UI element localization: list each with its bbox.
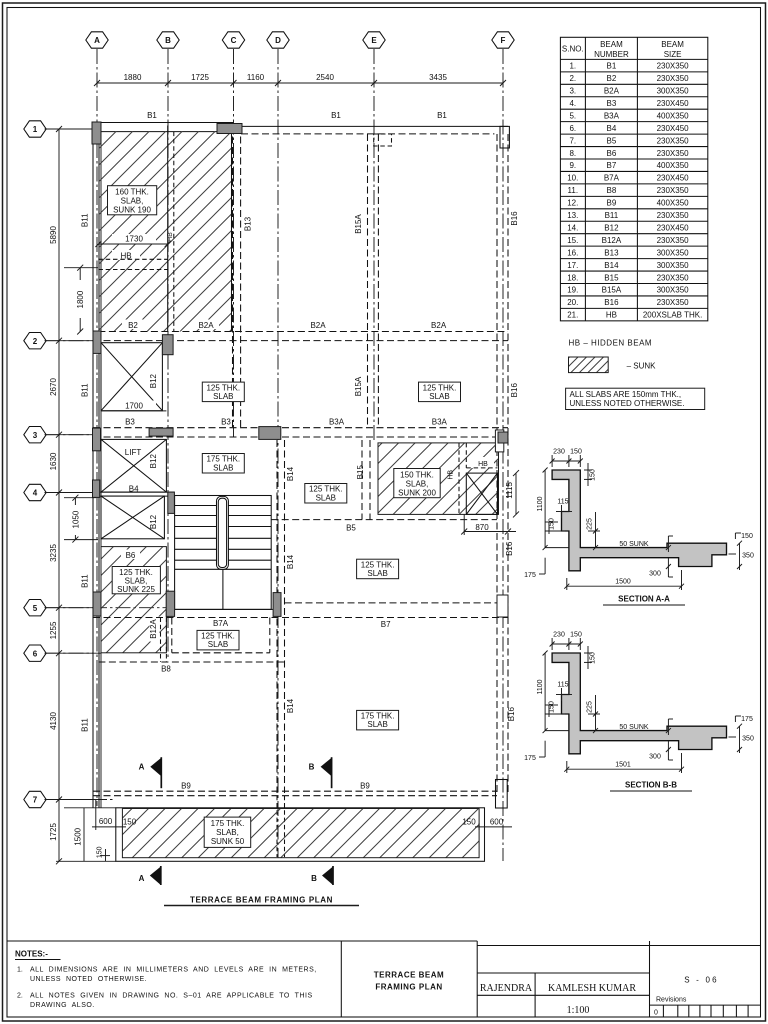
- svg-text:D: D: [275, 36, 281, 45]
- svg-text:B16: B16: [510, 383, 519, 398]
- svg-text:SUNK 50: SUNK 50: [211, 837, 245, 846]
- band dims left: [92, 800, 137, 830]
- bottom slab hatched 175 THK SUNK 50: [122, 809, 479, 858]
- svg-text:300: 300: [649, 571, 661, 578]
- beams B3 B3A along grid 3: [93, 427, 508, 429]
- svg-text:SLAB: SLAB: [367, 569, 387, 578]
- grid bubble B: [157, 32, 179, 48]
- svg-text:230X450: 230X450: [657, 124, 690, 133]
- staircase: [175, 496, 272, 610]
- revision boxes: [663, 1005, 748, 1017]
- svg-text:1255: 1255: [49, 621, 58, 639]
- column D/5: [273, 593, 281, 617]
- grid bubble D: [267, 32, 289, 48]
- grid line 7: [45, 799, 115, 801]
- svg-text:15.: 15.: [567, 236, 578, 245]
- svg-text:225: 225: [587, 518, 594, 530]
- dim 1700: [101, 401, 166, 411]
- svg-text:2670: 2670: [49, 378, 58, 396]
- column B/4: [168, 492, 175, 513]
- column F/7: [496, 780, 508, 809]
- svg-text:20.: 20.: [567, 298, 578, 307]
- svg-text:150: 150: [549, 518, 556, 530]
- svg-text:B9: B9: [181, 782, 191, 791]
- column B/2: [162, 335, 173, 355]
- svg-text:12.: 12.: [567, 199, 578, 208]
- column F/1: [500, 126, 509, 148]
- svg-text:UNLESS NOTED OTHERWISE.: UNLESS NOTED OTHERWISE.: [570, 399, 685, 408]
- svg-text:HB: HB: [478, 461, 488, 468]
- svg-text:B15A: B15A: [602, 286, 622, 295]
- svg-text:SIZE: SIZE: [664, 50, 682, 59]
- svg-text:3435: 3435: [429, 73, 447, 82]
- svg-text:B11: B11: [81, 213, 90, 227]
- svg-text:1501: 1501: [615, 762, 631, 769]
- svg-text:B15A: B15A: [354, 214, 363, 234]
- svg-text:B13: B13: [604, 248, 619, 257]
- svg-text:B16: B16: [505, 541, 514, 556]
- svg-text:8.: 8.: [569, 149, 576, 158]
- grid bubble F: [492, 32, 514, 48]
- column A/4: [93, 480, 100, 497]
- svg-text:KAMLESH KUMAR: KAMLESH KUMAR: [548, 983, 636, 994]
- band dims vertical: [56, 808, 116, 862]
- svg-text:B2A: B2A: [431, 321, 447, 330]
- stair landing bottom: [172, 608, 278, 610]
- svg-text:BEAM: BEAM: [600, 40, 623, 49]
- column C/1: [217, 124, 242, 134]
- svg-text:18.: 18.: [567, 273, 578, 282]
- svg-text:230: 230: [553, 449, 565, 456]
- bottom terrace band outer: [116, 808, 485, 862]
- svg-text:B15A: B15A: [354, 376, 363, 396]
- svg-text:2540: 2540: [316, 73, 334, 82]
- svg-text:SLAB: SLAB: [208, 640, 228, 649]
- column A/2: [93, 331, 101, 353]
- grid bubble E: [363, 32, 385, 48]
- column D/3: [259, 427, 281, 440]
- hidden beam HB vertical in slab S1: [167, 126, 169, 332]
- legend SUNK hatch: [569, 357, 609, 373]
- section top dims: [552, 643, 580, 645]
- svg-text:B1: B1: [331, 111, 341, 120]
- extension line grid 3: [45, 434, 94, 436]
- svg-text:NOTES:-: NOTES:-: [15, 950, 48, 959]
- svg-text:175: 175: [741, 716, 753, 723]
- shaft X box 2: [101, 496, 164, 539]
- grid bubble 7: [24, 791, 46, 807]
- svg-text:SUNK 200: SUNK 200: [398, 488, 436, 497]
- svg-text:E: E: [371, 36, 377, 45]
- beam B15: [361, 440, 363, 520]
- svg-text:B4: B4: [607, 124, 617, 133]
- grid line C: [233, 49, 235, 437]
- svg-text:400X350: 400X350: [657, 161, 690, 170]
- svg-text:17.: 17.: [567, 261, 578, 270]
- section flag A: [139, 757, 162, 788]
- grid line E: [373, 49, 375, 443]
- slab S1 text box: [108, 186, 157, 215]
- slab S3 hatched 125 THK SUNK 225 (B6): [101, 547, 166, 653]
- svg-text:B3: B3: [607, 99, 617, 108]
- extension line grid 1: [45, 128, 94, 130]
- svg-text:ALL SLABS ARE 150mm THK.,: ALL SLABS ARE 150mm THK.,: [570, 390, 682, 399]
- svg-text:225: 225: [587, 701, 594, 713]
- svg-text:B5: B5: [346, 524, 356, 533]
- svg-text:B2A: B2A: [604, 87, 620, 96]
- section flag B: [309, 757, 332, 788]
- beam B9 along grid 7: [93, 790, 497, 792]
- section flag A: [139, 866, 161, 885]
- svg-text:3235: 3235: [49, 544, 58, 562]
- svg-text:350: 350: [742, 736, 754, 743]
- svg-text:400X350: 400X350: [657, 199, 690, 208]
- svg-text:NUMBER: NUMBER: [594, 50, 629, 59]
- svg-text:1.: 1.: [17, 967, 23, 974]
- svg-text:B16: B16: [507, 706, 516, 721]
- svg-text:HB – HIDDEN BEAM: HB – HIDDEN BEAM: [569, 339, 653, 348]
- svg-text:B11: B11: [81, 718, 90, 732]
- svg-text:11.: 11.: [568, 186, 579, 195]
- svg-text:B14: B14: [604, 261, 619, 270]
- svg-text:B7: B7: [607, 161, 617, 170]
- column A/5: [93, 592, 101, 616]
- svg-text:1050: 1050: [72, 510, 81, 528]
- svg-text:B3A: B3A: [604, 111, 620, 120]
- svg-text:150: 150: [570, 449, 582, 456]
- top dimension line: [97, 82, 503, 84]
- svg-text:TERRACE BEAM: TERRACE BEAM: [374, 971, 444, 980]
- svg-text:B12: B12: [149, 373, 158, 388]
- svg-text:16.: 16.: [567, 248, 578, 257]
- slab label 175 THK (B-D,3-4): [202, 454, 244, 474]
- svg-text:B14: B14: [286, 554, 295, 569]
- svg-text:600: 600: [490, 818, 504, 827]
- X box in slab S2: [466, 473, 497, 514]
- slab S1 hatched 160 THK SUNK 190: [99, 132, 232, 332]
- svg-text:5.: 5.: [569, 111, 576, 120]
- beam B16 along grid F: [496, 134, 498, 793]
- svg-text:LIFT: LIFT: [125, 448, 142, 457]
- svg-text:B7: B7: [381, 620, 391, 629]
- svg-text:115: 115: [557, 499, 568, 506]
- svg-text:1500: 1500: [74, 827, 83, 845]
- svg-text:230X350: 230X350: [657, 236, 690, 245]
- svg-text:DRAWING ALSO.: DRAWING ALSO.: [30, 1002, 95, 1009]
- svg-text:B1: B1: [147, 111, 157, 120]
- svg-text:19.: 19.: [567, 286, 578, 295]
- beam B8: [98, 661, 284, 663]
- svg-text:230X350: 230X350: [657, 149, 690, 158]
- svg-text:B3: B3: [125, 418, 135, 427]
- svg-text:1100: 1100: [537, 496, 544, 511]
- svg-text:B1: B1: [607, 62, 617, 71]
- grid line 3: [45, 434, 93, 436]
- svg-text:600: 600: [99, 817, 113, 826]
- lift shaft X box: [101, 439, 166, 492]
- svg-text:S.NO.: S.NO.: [562, 45, 584, 54]
- extension line grid 4: [45, 492, 94, 494]
- svg-text:50 SUNK: 50 SUNK: [619, 724, 649, 731]
- svg-text:1800: 1800: [76, 290, 85, 308]
- hidden beam HB horizontal in slab S1: [98, 250, 167, 270]
- svg-text:RAJENDRA: RAJENDRA: [480, 983, 533, 994]
- svg-text:230X350: 230X350: [657, 273, 690, 282]
- svg-text:4.: 4.: [569, 99, 576, 108]
- extension line grid 7: [45, 799, 94, 801]
- beam B14 along grid D: [276, 440, 278, 793]
- grid line F: [502, 49, 504, 861]
- svg-text:SLAB,: SLAB,: [121, 197, 144, 206]
- svg-text:B: B: [309, 763, 315, 772]
- svg-text:6: 6: [33, 649, 38, 658]
- svg-text:300X350: 300X350: [657, 261, 690, 270]
- svg-text:– SUNK: – SUNK: [627, 362, 657, 371]
- svg-text:300X350: 300X350: [657, 87, 690, 96]
- svg-text:B11: B11: [605, 211, 619, 220]
- svg-text:SLAB,: SLAB,: [406, 479, 429, 488]
- dim 1115: [505, 470, 519, 517]
- beam B15A along grid E: [367, 134, 369, 428]
- dim 1050: [64, 495, 98, 543]
- svg-text:ALL DIMENSIONS ARE IN MILLIMET: ALL DIMENSIONS ARE IN MILLIMETERS AND LE…: [30, 967, 317, 974]
- extension line grid 6: [45, 652, 94, 654]
- grid line 6: [45, 652, 101, 654]
- svg-text:B12: B12: [149, 514, 158, 529]
- svg-text:230X450: 230X450: [657, 174, 690, 183]
- svg-text:B15: B15: [604, 273, 619, 282]
- svg-text:50 SUNK: 50 SUNK: [619, 541, 649, 548]
- slab label 125 THK (D-F,5): [357, 559, 399, 579]
- svg-text:B9: B9: [360, 782, 370, 791]
- svg-text:5: 5: [33, 604, 38, 613]
- svg-text:150: 150: [590, 469, 597, 481]
- hidden beam HB corner in S2: [470, 457, 494, 468]
- slab label 125 THK (D-F,2-3): [419, 382, 461, 402]
- svg-text:230X350: 230X350: [657, 298, 690, 307]
- svg-text:3: 3: [33, 431, 38, 440]
- svg-text:B3: B3: [221, 418, 231, 427]
- svg-text:A: A: [94, 36, 100, 45]
- svg-text:150: 150: [741, 533, 753, 540]
- svg-text:B11: B11: [81, 383, 90, 397]
- svg-text:B: B: [311, 874, 317, 883]
- svg-text:230X350: 230X350: [657, 186, 690, 195]
- svg-text:A: A: [139, 874, 145, 883]
- svg-text:HB: HB: [606, 311, 617, 320]
- svg-text:SLAB: SLAB: [213, 463, 233, 472]
- svg-text:400X350: 400X350: [657, 111, 690, 120]
- svg-text:230X450: 230X450: [657, 223, 690, 232]
- grid bubble 5: [24, 600, 46, 616]
- grid bubble 6: [24, 645, 46, 661]
- svg-text:1.: 1.: [569, 62, 576, 71]
- svg-text:13.: 13.: [567, 211, 578, 220]
- svg-text:7: 7: [33, 796, 38, 805]
- svg-text:SLAB: SLAB: [213, 392, 233, 401]
- slab label 125 THK (D-E): [305, 484, 347, 504]
- svg-text:B1: B1: [437, 111, 447, 120]
- extension line grid 5: [45, 607, 94, 609]
- svg-text:B2: B2: [128, 321, 138, 330]
- svg-text:B5: B5: [607, 136, 617, 145]
- svg-text:6.: 6.: [569, 124, 576, 133]
- svg-text:300: 300: [649, 754, 661, 761]
- section B-B profile: [524, 632, 754, 774]
- svg-text:3.: 3.: [569, 87, 576, 96]
- svg-text:350: 350: [742, 553, 754, 560]
- svg-text:B3A: B3A: [329, 418, 345, 427]
- svg-text:300X350: 300X350: [657, 248, 690, 257]
- svg-text:115: 115: [557, 682, 568, 689]
- left dimension line: [58, 129, 60, 861]
- svg-text:HB: HB: [448, 470, 455, 480]
- svg-text:B12A: B12A: [602, 236, 622, 245]
- svg-text:SUNK 190: SUNK 190: [113, 206, 151, 215]
- svg-text:2: 2: [33, 337, 38, 346]
- column F/3 jog: [495, 430, 503, 452]
- column B/3 pier: [149, 428, 173, 436]
- svg-text:150: 150: [570, 632, 582, 639]
- svg-text:230X350: 230X350: [657, 136, 690, 145]
- slab label 125 THK (B7A): [197, 630, 239, 650]
- section A-A profile: [524, 449, 754, 591]
- svg-text:B6: B6: [607, 149, 617, 158]
- title block: [7, 941, 761, 1017]
- svg-text:175 THK.: 175 THK.: [211, 819, 245, 828]
- column E/1 notch: [374, 134, 392, 146]
- shaft X box 1: [101, 343, 162, 411]
- svg-text:B2: B2: [607, 74, 617, 83]
- svg-text:1725: 1725: [191, 73, 209, 82]
- svg-text:SUNK 225: SUNK 225: [117, 585, 155, 594]
- svg-text:150: 150: [590, 652, 597, 664]
- svg-text:F: F: [501, 36, 506, 45]
- svg-text:1: 1: [33, 125, 38, 134]
- grid bubble 2: [24, 333, 46, 349]
- svg-text:B11: B11: [81, 574, 90, 588]
- svg-text:B8: B8: [161, 665, 171, 674]
- beam B5: [271, 519, 497, 521]
- slab S2 hatched 150 THK SUNK 200: [378, 443, 499, 515]
- svg-text:UNLESS NOTED OTHERWISE.: UNLESS NOTED OTHERWISE.: [30, 976, 147, 983]
- grid bubble 1: [24, 121, 46, 137]
- slab S2 text box: [394, 469, 440, 498]
- svg-text:HB: HB: [167, 232, 174, 242]
- svg-text:B3A: B3A: [432, 418, 448, 427]
- dim 870: [461, 514, 516, 535]
- beam B7 along grid 5: [285, 602, 509, 604]
- svg-text:230X450: 230X450: [657, 99, 690, 108]
- section top dims: [552, 460, 580, 462]
- svg-text:4: 4: [33, 489, 38, 498]
- svg-text:150: 150: [123, 818, 137, 827]
- beam B1 top chord: [93, 122, 234, 124]
- svg-text:SECTION B-B: SECTION B-B: [625, 781, 677, 790]
- grid line 4: [45, 492, 93, 494]
- grid line 1: [45, 128, 93, 130]
- svg-text:5890: 5890: [49, 226, 58, 244]
- svg-text:B16: B16: [604, 298, 619, 307]
- svg-text:B12: B12: [149, 454, 158, 469]
- beam B13 along grid C: [232, 137, 234, 428]
- svg-text:SLAB: SLAB: [367, 720, 387, 729]
- grid bubble A: [86, 32, 108, 48]
- column A/1: [92, 122, 101, 144]
- section flag B: [311, 866, 333, 885]
- svg-text:10.: 10.: [567, 174, 578, 183]
- svg-text:SECTION A-A: SECTION A-A: [618, 595, 670, 604]
- svg-text:1630: 1630: [49, 452, 58, 470]
- column F/5: [497, 595, 508, 617]
- svg-text:175: 175: [524, 572, 536, 579]
- svg-text:21.: 21.: [567, 311, 578, 320]
- svg-text:1100: 1100: [537, 679, 544, 694]
- svg-text:B12A: B12A: [149, 619, 158, 639]
- svg-text:Revisions: Revisions: [656, 997, 687, 1004]
- grid line 2: [45, 340, 93, 342]
- svg-text:B6: B6: [126, 551, 136, 560]
- svg-text:230X350: 230X350: [657, 74, 690, 83]
- svg-text:B7A: B7A: [213, 619, 229, 628]
- svg-text:B8: B8: [607, 186, 617, 195]
- room B7A dashed boundary: [172, 652, 270, 654]
- svg-text:230: 230: [553, 632, 565, 639]
- grid line 5: [45, 607, 172, 609]
- column F/3: [497, 432, 508, 443]
- svg-text:SLAB: SLAB: [429, 392, 449, 401]
- svg-text:B12: B12: [604, 223, 619, 232]
- svg-text:FRAMING PLAN: FRAMING PLAN: [375, 983, 442, 992]
- column B/5: [166, 591, 174, 616]
- svg-text:B13: B13: [244, 216, 253, 231]
- svg-text:1725: 1725: [49, 823, 58, 841]
- svg-text:1160: 1160: [247, 73, 265, 82]
- svg-text:175: 175: [524, 755, 536, 762]
- svg-text:B15: B15: [356, 465, 365, 480]
- svg-text:230X350: 230X350: [657, 211, 690, 220]
- svg-text:B14: B14: [286, 698, 295, 713]
- grid line A: [96, 49, 98, 806]
- svg-text:7.: 7.: [569, 136, 576, 145]
- beam B4 along grid 4: [93, 491, 175, 493]
- grid line B: [167, 49, 169, 660]
- svg-text:1880: 1880: [124, 73, 142, 82]
- svg-text:150: 150: [462, 818, 476, 827]
- svg-text:B14: B14: [286, 466, 295, 481]
- note box all slabs: [566, 388, 705, 409]
- svg-text:300X350: 300X350: [657, 286, 690, 295]
- svg-text:1:100: 1:100: [567, 1005, 590, 1016]
- svg-text:B7A: B7A: [604, 174, 620, 183]
- svg-text:S - 06: S - 06: [684, 976, 719, 985]
- svg-text:ALL NOTES GIVEN IN DRAWING NO.: ALL NOTES GIVEN IN DRAWING NO. S–01 ARE …: [30, 993, 313, 1000]
- grid bubble 3: [24, 427, 46, 443]
- svg-text:B2A: B2A: [198, 321, 214, 330]
- slab label 175 THK (D-F,6-7): [357, 710, 399, 730]
- svg-text:C: C: [231, 36, 237, 45]
- svg-text:1700: 1700: [125, 402, 143, 411]
- svg-text:14.: 14.: [567, 223, 578, 232]
- svg-text:BEAM: BEAM: [661, 40, 684, 49]
- svg-text:B: B: [165, 36, 171, 45]
- svg-text:2.: 2.: [569, 74, 576, 83]
- svg-text:SLAB,: SLAB,: [216, 828, 239, 837]
- dim 1800: [64, 265, 98, 335]
- wall beam B11 along grid A: [92, 123, 94, 808]
- svg-text:870: 870: [475, 523, 489, 532]
- svg-text:1500: 1500: [615, 579, 631, 586]
